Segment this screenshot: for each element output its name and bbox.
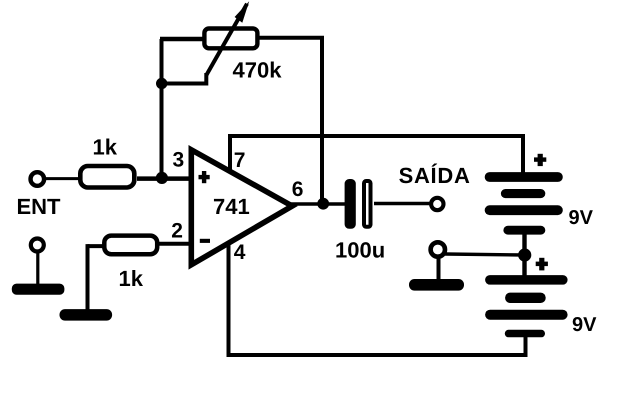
svg-text:7: 7	[234, 149, 246, 172]
svg-text:4: 4	[234, 241, 246, 264]
svg-text:3: 3	[173, 149, 185, 172]
svg-text:1k: 1k	[119, 266, 144, 291]
svg-text:6: 6	[292, 178, 304, 201]
svg-text:SAÍDA: SAÍDA	[399, 163, 471, 188]
svg-text:741: 741	[213, 194, 250, 219]
svg-text:9V: 9V	[569, 207, 594, 229]
svg-text:100u: 100u	[335, 238, 385, 263]
svg-text:1k: 1k	[93, 135, 118, 160]
svg-text:ENT: ENT	[17, 194, 62, 219]
svg-text:9V: 9V	[572, 314, 597, 336]
svg-text:2: 2	[171, 220, 183, 243]
svg-text:470k: 470k	[233, 58, 283, 83]
